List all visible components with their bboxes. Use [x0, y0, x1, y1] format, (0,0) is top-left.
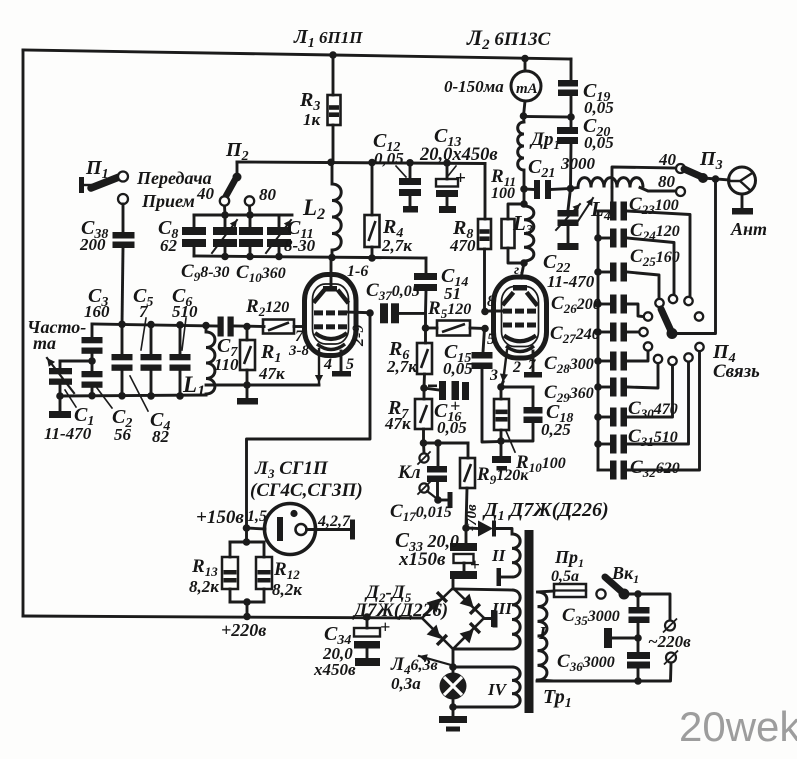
- wire L1 grid2 to C37: [344, 311, 370, 315]
- wire +220V bottom rail: [23, 616, 422, 618]
- wire pin8 stub: [485, 310, 502, 313]
- svg-text:3: 3: [489, 367, 498, 384]
- capacitor C34 electrolytic 20x450V: [366, 617, 369, 628]
- svg-text:0-150ма: 0-150ма: [444, 77, 504, 96]
- capacitor C22 11-470 variable: [568, 189, 571, 211]
- svg-text:20,0х450в: 20,0х450в: [419, 145, 498, 165]
- svg-text:0,05: 0,05: [584, 133, 614, 152]
- wire L1 anode stem: [330, 258, 333, 289]
- wire cathode node: [501, 382, 503, 387]
- svg-text:С31510: С31510: [628, 426, 678, 449]
- resistor R9 120k: [467, 443, 470, 458]
- resistor R1 47k: [246, 327, 249, 341]
- svg-text:(СГ4С,СГЗП): (СГ4С,СГЗП): [250, 480, 363, 501]
- wire trimmer bank bottom bus / anode bus: [194, 256, 426, 258]
- wire P4 common: [672, 179, 716, 334]
- wire bridge right chassis: [484, 617, 493, 620]
- svg-text:160: 160: [84, 302, 110, 321]
- winding III: [453, 589, 512, 590]
- wire C26 to contact: [627, 304, 643, 317]
- svg-text:С27240: С27240: [550, 323, 600, 346]
- capacitor C36 3000: [637, 638, 640, 652]
- wire screen bus: [237, 162, 485, 164]
- wire L2 cathode arrow pin2: [503, 350, 507, 382]
- capacitor C25 160: [598, 271, 610, 274]
- capacitor C17 0.015: [437, 443, 440, 466]
- svg-text:8,2к: 8,2к: [189, 577, 219, 596]
- svg-text:470: 470: [449, 236, 476, 255]
- wire C30 to contact: [627, 365, 673, 417]
- svg-text:2: 2: [512, 359, 521, 376]
- wire P3 to antenna: [703, 178, 729, 180]
- switch P2: [236, 162, 239, 175]
- tube L2 6P13S: [494, 277, 547, 358]
- svg-text:Кл: Кл: [397, 462, 421, 483]
- svg-text:0,25: 0,25: [541, 420, 571, 439]
- inductor L3: [524, 206, 534, 261]
- wire C29 to contact: [627, 363, 658, 388]
- svg-text:3000: 3000: [560, 154, 596, 173]
- svg-text:2,7к: 2,7к: [386, 357, 417, 376]
- svg-text:С170,015: С170,015: [390, 501, 452, 524]
- wire meter to C19/C20 node: [524, 115, 572, 118]
- svg-text:+150в: +150в: [196, 507, 244, 528]
- chassis stub at key: [438, 499, 448, 502]
- capacitor C13 electrolytic 20.0x450V: [446, 163, 449, 179]
- wire C28 to contact: [627, 351, 648, 361]
- resistor R5 120: [426, 327, 438, 330]
- resistors R13 R12 parallel: [245, 528, 248, 542]
- svg-text:8: 8: [487, 293, 495, 310]
- svg-text:62: 62: [160, 236, 178, 255]
- svg-text:8,2к: 8,2к: [272, 580, 302, 599]
- svg-text:I: I: [538, 623, 547, 643]
- tube L1 6P1P: [305, 275, 357, 356]
- svg-text:47к: 47к: [258, 364, 285, 383]
- wire grid2 feed line: [424, 313, 427, 328]
- capacitor C18 0.25: [501, 386, 533, 389]
- wire bank feed from L4 tap: [598, 188, 612, 212]
- svg-text:С26200: С26200: [551, 293, 601, 316]
- mains terminal 2: [666, 653, 676, 663]
- wire C32 to contact: [627, 351, 700, 470]
- capacitor C30 470: [598, 416, 610, 419]
- capacitor C21 3000: [524, 188, 534, 191]
- switch P3: [684, 169, 702, 177]
- diode D1: [478, 521, 493, 537]
- svg-text:4,2,7: 4,2,7: [317, 513, 351, 530]
- resistor R2 120: [263, 320, 294, 334]
- fuse Pr1 0.5A: [554, 584, 586, 597]
- svg-text:0,3а: 0,3а: [391, 674, 421, 693]
- capacitor C32 620: [598, 469, 610, 472]
- svg-text:200: 200: [79, 235, 106, 254]
- svg-text:R5120: R5120: [427, 298, 471, 321]
- wire C27 to contact: [627, 331, 639, 334]
- svg-text:5: 5: [487, 331, 495, 348]
- wire oscillator bottom rail: [60, 395, 206, 396]
- capacitor C6 510: [179, 325, 182, 354]
- wire bias rectifier node: [466, 527, 478, 530]
- svg-text:4: 4: [323, 356, 332, 373]
- capacitor C28 300: [598, 360, 610, 363]
- inductor L4 variable: [578, 178, 643, 188]
- svg-text:х450в: х450в: [313, 660, 356, 679]
- node top rail junction L1 anode: [329, 51, 337, 59]
- capacitor C35 3000: [637, 594, 640, 607]
- capacitor C9 8-30 trimmer: [224, 215, 227, 227]
- winding II: [497, 529, 512, 535]
- svg-text:40: 40: [196, 184, 215, 203]
- svg-text:7: 7: [528, 357, 536, 373]
- wire cathode return: [206, 384, 319, 387]
- wire bias node: [424, 442, 469, 445]
- capacitor C15 0.05: [483, 329, 485, 353]
- ground under R10: [500, 441, 503, 456]
- bridge rectifier D2-D5: [422, 588, 484, 649]
- svg-text:5: 5: [346, 356, 354, 373]
- wire bridge bottom to lamp: [452, 649, 455, 673]
- capacitor C26 200: [598, 303, 610, 306]
- wire mains bottom: [537, 663, 671, 681]
- svg-text:11-470: 11-470: [44, 424, 92, 443]
- capacitor C31 510: [598, 443, 610, 446]
- svg-text:20wek: 20wek: [679, 703, 797, 750]
- ground under C1: [59, 396, 62, 411]
- wire left border: [22, 50, 25, 616]
- wire screen grid +150V path: [247, 313, 371, 528]
- svg-text:510: 510: [172, 302, 198, 321]
- winding III center tap: [484, 617, 492, 620]
- resistor R6 2.7k: [424, 328, 427, 343]
- svg-text:Ант: Ант: [730, 219, 767, 239]
- svg-text:С363000: С363000: [557, 651, 615, 674]
- wire grid rail: [92, 324, 218, 326]
- wire C25 to contact: [627, 272, 659, 298]
- capacitor C24 120: [598, 237, 610, 240]
- switch P1: [79, 177, 84, 193]
- ground under lamp: [452, 700, 455, 717]
- capacitor C7 110: [218, 317, 224, 337]
- wire trimmer bank top bus: [194, 214, 292, 217]
- capacitor C19 0.05: [570, 59, 573, 80]
- mains terminal 1: [665, 621, 675, 631]
- svg-text:47к: 47к: [384, 414, 411, 433]
- resistor R7 47k: [423, 388, 426, 399]
- svg-text:+220в: +220в: [221, 620, 266, 640]
- svg-text:0,5а: 0,5а: [551, 568, 579, 585]
- contact spare: [695, 312, 703, 320]
- capacitor C37 0.05: [380, 303, 388, 323]
- svg-text:~220в: ~220в: [648, 632, 691, 651]
- svg-text:40: 40: [658, 150, 677, 169]
- winding IV: [453, 666, 512, 669]
- wire mains top: [624, 594, 670, 620]
- svg-text:С25160: С25160: [630, 246, 680, 269]
- capacitor C27 240: [598, 331, 610, 334]
- resistor R4 2.7k: [371, 163, 374, 215]
- resistor R11 100: [523, 189, 526, 204]
- svg-text:1-6: 1-6: [347, 263, 368, 280]
- lamp L4 6.3V: [440, 673, 467, 700]
- svg-text:110: 110: [214, 355, 239, 374]
- svg-text:IV: IV: [487, 680, 508, 699]
- capacitor C33 electrolytic 20x150V: [465, 528, 468, 543]
- svg-text:С29360: С29360: [544, 382, 594, 405]
- svg-text:100: 100: [491, 185, 515, 202]
- svg-text:0,05: 0,05: [437, 418, 467, 437]
- tube L3 SG1P stabilizer: [247, 528, 266, 529]
- capacitor C14 51: [425, 258, 428, 273]
- switch Vk1: [605, 577, 622, 592]
- switch P4 rotor: [661, 309, 671, 331]
- capacitor C29 360: [598, 386, 610, 389]
- resistor R8 470: [484, 164, 487, 220]
- heater arrow: [419, 656, 451, 665]
- resistor R10 100: [500, 387, 503, 399]
- svg-text:0,05: 0,05: [374, 149, 404, 168]
- ground under R1: [246, 385, 249, 398]
- wire L2 anode drop: [524, 59, 527, 72]
- svg-text:С98-30: С98-30: [181, 261, 230, 284]
- svg-text:2,7к: 2,7к: [381, 236, 412, 255]
- wire C23 to contact: [627, 211, 690, 296]
- capacitor C2 56: [82, 371, 103, 377]
- capacitor C8 62: [193, 215, 196, 227]
- capacitor C4 82: [121, 324, 124, 354]
- wire top supply rail: [23, 50, 571, 59]
- choke Dr1: [522, 116, 525, 122]
- svg-text:R2120: R2120: [245, 296, 289, 319]
- capacitor C1 11-470 variable: [59, 361, 62, 368]
- svg-text:С353000: С353000: [562, 605, 620, 628]
- antenna symbol: [729, 167, 756, 194]
- svg-text:11-470: 11-470: [547, 272, 595, 291]
- capacitor C3 160: [91, 324, 94, 337]
- svg-text:1к: 1к: [303, 110, 321, 129]
- svg-text:+: +: [455, 168, 466, 189]
- wire C24 to contact: [627, 238, 674, 294]
- svg-text:82: 82: [152, 427, 170, 446]
- svg-text:Прием: Прием: [141, 191, 195, 211]
- wire pin5 stub: [340, 351, 343, 371]
- wire L1 cathode arrow pin4: [318, 349, 320, 383]
- svg-text:С28300: С28300: [544, 353, 594, 376]
- transformer Tr1 core: [525, 530, 534, 713]
- wire +150V node: [243, 524, 251, 532]
- capacitor C12 0.05: [409, 163, 412, 178]
- capacitor C38 200: [122, 204, 125, 232]
- wire pin7 stub: [532, 351, 535, 372]
- wire bridge top to C33: [452, 579, 455, 588]
- inductor L1: [205, 326, 208, 333]
- capacitor C16 electrolytic: [424, 388, 439, 390]
- wire 80 tap: [640, 188, 676, 192]
- svg-text:80: 80: [658, 172, 676, 191]
- inductor L2: [331, 162, 334, 184]
- meter mA 0-150: [511, 71, 541, 101]
- svg-text:С370,05: С370,05: [366, 280, 420, 303]
- key jack Kl terminal 1: [422, 443, 425, 453]
- svg-text:х150в: х150в: [398, 549, 446, 570]
- svg-text:та: та: [33, 333, 56, 353]
- svg-text:2-9: 2-9: [350, 325, 367, 347]
- svg-text:С10360: С10360: [236, 262, 286, 285]
- key jack Kl terminal 2: [419, 483, 428, 492]
- svg-text:56: 56: [114, 425, 132, 444]
- svg-text:80: 80: [259, 185, 277, 204]
- svg-text:Связь: Связь: [713, 361, 760, 382]
- svg-text:Л3 СГ1П: Л3 СГ1П: [254, 458, 329, 481]
- wire grid cap stem: [521, 263, 524, 278]
- svg-text:0,05: 0,05: [443, 359, 473, 378]
- ground between C35 C36: [612, 637, 638, 640]
- svg-text:+: +: [380, 617, 390, 637]
- svg-text:тА: тА: [516, 81, 538, 97]
- svg-text:8-30: 8-30: [284, 236, 316, 255]
- svg-text:Л2 6П13С: Л2 6П13С: [466, 25, 551, 53]
- capacitor C5 7: [150, 325, 153, 354]
- wire 40 tap: [612, 167, 676, 188]
- svg-text:3-8: 3-8: [288, 343, 309, 359]
- capacitor C23 100: [598, 210, 610, 213]
- resistor R3: [332, 55, 335, 95]
- wire bank bus: [597, 211, 600, 470]
- capacitor C11 8-30 trimmer: [278, 215, 281, 227]
- capacitor C20 0.05: [570, 117, 573, 127]
- wire C1 branch: [60, 360, 92, 363]
- node top rail junction meter: [521, 55, 529, 63]
- svg-text:С32620: С32620: [630, 457, 680, 480]
- capacitor C10 360: [249, 215, 252, 227]
- svg-text:II: II: [491, 546, 507, 565]
- wire C31 to contact: [627, 362, 689, 444]
- primary winding I: [538, 592, 547, 680]
